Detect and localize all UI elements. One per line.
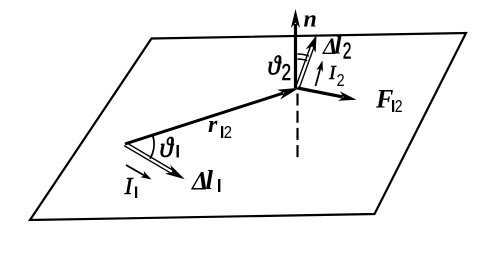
svg-text:n: n — [304, 7, 317, 33]
angle theta1 arc — [150, 135, 154, 159]
svg-text:I: I — [124, 174, 134, 200]
svg-text:F: F — [375, 85, 393, 114]
label delta-l2 — [322, 33, 351, 65]
vector r12 from element 1 to element 2 — [125, 88, 300, 144]
label F12 — [375, 85, 403, 117]
label I1 — [124, 174, 138, 200]
current I2 arrow — [316, 61, 324, 87]
svg-text:l: l — [206, 165, 214, 195]
vector n (normal) — [291, 9, 300, 88]
angle theta2 double arc — [298, 54, 309, 61]
force F12 arrow — [298, 88, 357, 101]
current I1 arrow — [126, 165, 152, 180]
label theta2 — [268, 51, 292, 86]
svg-text:2: 2 — [337, 72, 345, 91]
label theta1 — [160, 133, 179, 163]
label I2 — [328, 62, 345, 91]
svg-text:r: r — [208, 112, 218, 138]
svg-text:2: 2 — [395, 98, 403, 117]
svg-text:I: I — [328, 62, 337, 84]
wire: element dl1 (hollow shaft with arrowhead) — [124, 142, 185, 179]
svg-text:ϑ: ϑ — [268, 51, 282, 80]
svg-text:ϑ: ϑ — [160, 133, 175, 163]
svg-text:2: 2 — [282, 61, 292, 86]
svg-text:2: 2 — [343, 39, 352, 65]
label r12 — [208, 112, 232, 143]
plane (parallelogram outline) — [30, 33, 466, 220]
svg-text:l: l — [335, 33, 342, 60]
svg-text:2: 2 — [224, 123, 232, 142]
dashed projection line below node P2 — [296, 94, 298, 161]
label delta-l1 — [191, 165, 220, 196]
wire: element dl2 (hollow shaft with arrowhead) — [296, 35, 317, 88]
